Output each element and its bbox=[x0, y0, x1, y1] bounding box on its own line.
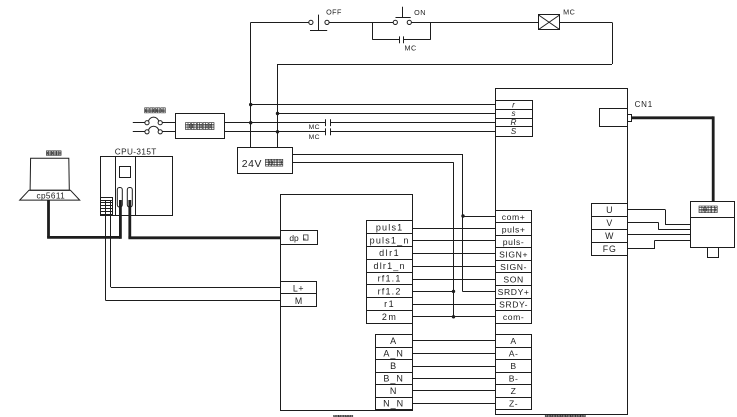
wire com+ tap bbox=[463, 216, 496, 218]
pin puls- (servo ctrl) bbox=[496, 236, 532, 248]
svg-text:B-: B- bbox=[509, 374, 519, 384]
pin SIGN+ (servo ctrl) bbox=[496, 248, 532, 261]
pin r1 (PLC out) bbox=[367, 298, 413, 311]
svg-text:U: U bbox=[606, 205, 613, 215]
wire puls1 to puls+ bbox=[413, 228, 496, 230]
wire PLC to L+ bbox=[111, 200, 281, 288]
pin com+ (servo ctrl) bbox=[496, 211, 532, 223]
label MC holding contact bbox=[405, 43, 417, 52]
svg-text:com-: com- bbox=[503, 312, 525, 322]
svg-text:B_N: B_N bbox=[383, 374, 404, 384]
wire 24V- output to 0V rail bbox=[292, 162, 453, 317]
svg-text:A: A bbox=[390, 336, 397, 346]
svg-text:MC: MC bbox=[309, 134, 320, 141]
svg-text:dlr1: dlr1 bbox=[379, 248, 400, 258]
terminal L+ bbox=[281, 282, 317, 294]
cable Profibus-DP PLC slot2 to dp port (thick) bbox=[128, 200, 280, 238]
svg-text:MC: MC bbox=[563, 8, 575, 17]
power supply 24V regulator box bbox=[238, 148, 293, 174]
svg-text:SIGN+: SIGN+ bbox=[499, 249, 528, 259]
svg-text:rf1.2: rf1.2 bbox=[378, 287, 402, 297]
wire A to A bbox=[412, 340, 496, 342]
svg-text:MC: MC bbox=[405, 43, 417, 52]
pin FG (servo motor out) bbox=[592, 243, 628, 256]
pin B- (servo enc out) bbox=[496, 373, 532, 385]
contact MC main R bbox=[326, 119, 331, 126]
svg-text:SRDY-: SRDY- bbox=[499, 300, 528, 310]
svg-text:R: R bbox=[511, 118, 517, 127]
svg-text:A: A bbox=[510, 336, 516, 346]
svg-text:Z: Z bbox=[511, 386, 517, 396]
svg-text:24V: 24V bbox=[242, 159, 262, 170]
wire rf1.1 to SON bbox=[413, 279, 496, 281]
pin com- (servo ctrl) bbox=[496, 311, 532, 324]
wire B_N to B- bbox=[412, 378, 496, 380]
label industrial PC (gong kong ji) bbox=[46, 151, 61, 156]
wire s feed to servo bbox=[278, 113, 496, 115]
label regulator (wen ya qi) bbox=[266, 159, 283, 166]
label power line filter bbox=[186, 123, 215, 130]
label cp5611 bbox=[36, 191, 65, 200]
pushbutton ON (NO) bbox=[393, 7, 411, 25]
svg-text:s: s bbox=[511, 109, 515, 118]
svg-text:A_N: A_N bbox=[383, 349, 404, 359]
wire OFF to ON-branch bbox=[329, 22, 393, 24]
pin 2m (PLC out) bbox=[367, 311, 413, 324]
svg-text:S: S bbox=[511, 127, 517, 136]
label CN1 bbox=[635, 100, 653, 109]
node s-tap on feeder 2 bbox=[276, 112, 279, 115]
wire A_N to A- bbox=[412, 353, 496, 355]
wire 2m to com- bbox=[413, 316, 496, 318]
pin Z (servo enc out) bbox=[496, 385, 532, 398]
pin s (servo mains) bbox=[496, 109, 533, 118]
svg-text:SON: SON bbox=[503, 275, 523, 285]
svg-text:A-: A- bbox=[509, 349, 519, 359]
wire PLC to M bbox=[106, 200, 281, 301]
node r-tap on feeder 1 bbox=[249, 103, 252, 106]
svg-text:dp: dp bbox=[289, 233, 299, 243]
node 24V+ to com+ tap bbox=[461, 214, 464, 217]
computer laptop base bbox=[20, 190, 80, 200]
svg-text:puls+: puls+ bbox=[502, 224, 526, 234]
contact MC holding (parallel with ON) bbox=[373, 36, 431, 43]
pin rf1.1 (PLC out) bbox=[367, 273, 413, 285]
pin dlr1_n (PLC out) bbox=[367, 260, 413, 273]
PLC port slot 2 bbox=[127, 188, 132, 208]
label OFF bbox=[326, 7, 342, 16]
svg-text:dlr1_n: dlr1_n bbox=[373, 261, 405, 271]
pin S (servo mains) bbox=[496, 127, 533, 137]
wire N_N to Z- bbox=[412, 403, 496, 405]
label MC coil bbox=[563, 8, 575, 17]
wire filter to MC main contact R bbox=[225, 122, 326, 124]
svg-text:FG: FG bbox=[603, 244, 617, 254]
label dp port bbox=[289, 233, 308, 243]
pin B_N (PLC in) bbox=[376, 373, 413, 385]
wire r1 to SRDY- bbox=[413, 304, 496, 306]
pin N_N (PLC in) bbox=[376, 398, 413, 410]
wire MC coil to return loop bbox=[560, 22, 613, 64]
contact MC main S bbox=[326, 128, 331, 135]
svg-text:N: N bbox=[390, 386, 398, 396]
filter box (dian yuan lv bo qi) bbox=[176, 114, 225, 139]
wire control return rail bbox=[278, 64, 613, 66]
computer laptop screen bbox=[30, 158, 69, 190]
pin N (PLC in) bbox=[376, 385, 413, 398]
node ON branch right bbox=[430, 22, 432, 39]
svg-text:puls-: puls- bbox=[503, 237, 525, 247]
pin SRDY+ (servo ctrl) bbox=[496, 286, 532, 299]
node filter-line tap on feeder 1 bbox=[249, 121, 252, 124]
svg-text:W: W bbox=[605, 231, 614, 241]
wire phase-1 feeder vertical (to 24V and OFF) bbox=[250, 22, 252, 147]
PLC terminal stripes bbox=[101, 197, 114, 215]
breaker QF pole 1 bbox=[133, 117, 176, 125]
wire puls1_n to puls- bbox=[413, 240, 496, 242]
svg-text:Z-: Z- bbox=[509, 399, 518, 409]
node filter-line tap on feeder 2 bbox=[276, 130, 279, 133]
terminal M bbox=[281, 294, 317, 307]
pin r (servo mains) bbox=[496, 100, 533, 109]
pin A- (servo enc out) bbox=[496, 348, 532, 360]
wire MC contact to servo R bbox=[330, 122, 495, 124]
wire B to B bbox=[412, 366, 496, 368]
wire dlr1 to SIGN+ bbox=[413, 253, 496, 255]
pushbutton OFF (NC) bbox=[309, 15, 329, 31]
wire MC contact to servo S bbox=[330, 131, 495, 133]
label under PLC rack (clipped) bbox=[334, 415, 353, 417]
svg-text:2m: 2m bbox=[382, 312, 398, 322]
label encoder (bian ma qi) bbox=[699, 206, 717, 213]
svg-text:M: M bbox=[295, 296, 302, 306]
svg-text:puls1_n: puls1_n bbox=[370, 235, 410, 245]
label air breaker (kong qi kai guan) bbox=[145, 108, 166, 113]
svg-text:rf1.1: rf1.1 bbox=[378, 274, 402, 284]
pin U (servo motor out) bbox=[592, 204, 628, 217]
connector dp port box bbox=[281, 231, 318, 245]
label MC main R bbox=[309, 124, 320, 131]
svg-text:B: B bbox=[390, 361, 397, 371]
wire r feed to servo bbox=[251, 104, 496, 106]
label under servo drive (clipped) bbox=[545, 415, 585, 417]
PLC I/O rack box bbox=[281, 195, 413, 411]
PLC CPU-315T body bbox=[101, 156, 173, 215]
svg-text:puls1: puls1 bbox=[376, 223, 404, 233]
pin W (servo motor out) bbox=[592, 230, 628, 243]
svg-text:SIGN-: SIGN- bbox=[500, 262, 527, 272]
pin A_N (PLC in) bbox=[376, 348, 413, 360]
pin SON (servo ctrl) bbox=[496, 273, 532, 286]
pin B (PLC in) bbox=[376, 360, 413, 373]
PLC port slot 1 bbox=[117, 188, 122, 208]
svg-text:OFF: OFF bbox=[326, 7, 342, 16]
svg-text:r: r bbox=[512, 100, 515, 109]
pin B (servo enc out) bbox=[496, 360, 532, 373]
svg-text:CPU-315T: CPU-315T bbox=[115, 147, 157, 156]
node ON branch left bbox=[372, 22, 374, 39]
label MC main S bbox=[309, 134, 320, 141]
wire phase-2 feeder vertical (to 24V and return rail) bbox=[277, 64, 279, 147]
connector CN1 box bbox=[600, 109, 632, 127]
cable encoder feedback CN1 to encoder (thick) bbox=[632, 116, 714, 201]
wire dlr1_n to SIGN- bbox=[413, 266, 496, 268]
pin puls1_n (PLC out) bbox=[367, 234, 413, 247]
svg-text:N_N: N_N bbox=[383, 399, 404, 409]
pin puls1 (PLC out) bbox=[367, 221, 413, 234]
pin SRDY- (servo ctrl) bbox=[496, 299, 532, 311]
node rf1.2 join on 0V rail bbox=[452, 290, 455, 293]
svg-text:com+: com+ bbox=[502, 212, 526, 222]
svg-text:B: B bbox=[510, 361, 516, 371]
coil MC (contactor coil) bbox=[538, 15, 559, 30]
svg-text:ON: ON bbox=[414, 8, 426, 17]
svg-text:r1: r1 bbox=[384, 299, 395, 309]
wire ON to MC coil bbox=[411, 22, 538, 24]
svg-text:V: V bbox=[606, 218, 613, 228]
svg-text:CN1: CN1 bbox=[635, 100, 653, 109]
cable MPI laptop to PLC slot1 (thick) bbox=[47, 200, 120, 239]
label 24V bbox=[242, 159, 262, 170]
pin A (PLC in) bbox=[376, 335, 413, 348]
node 0V rail to com- wire bbox=[452, 315, 455, 318]
pin Z- (servo enc out) bbox=[496, 398, 532, 410]
wire V to motor bbox=[628, 223, 691, 230]
pin A (servo enc out) bbox=[496, 335, 532, 348]
wire 24V+ output to com+ and SRDY+ bbox=[292, 155, 495, 292]
wire U to motor bbox=[628, 210, 691, 225]
encoder/motor box bbox=[690, 202, 734, 258]
pin V (servo motor out) bbox=[592, 217, 628, 230]
label CPU-315T bbox=[115, 147, 157, 156]
svg-text:MC: MC bbox=[309, 124, 320, 131]
breaker QF pole 2 bbox=[133, 126, 176, 134]
wire rf1.2 to 0V rail bbox=[413, 291, 454, 293]
wire filter to MC main contact S bbox=[225, 131, 326, 133]
wire N to Z bbox=[412, 390, 496, 392]
pin SIGN- (servo ctrl) bbox=[496, 261, 532, 273]
pin puls+ (servo ctrl) bbox=[496, 223, 532, 236]
PLC mode selector square bbox=[120, 167, 131, 178]
wire FG to motor bbox=[628, 240, 691, 248]
label ON bbox=[414, 8, 426, 17]
svg-text:cp5611: cp5611 bbox=[36, 191, 65, 200]
svg-text:SRDY+: SRDY+ bbox=[498, 287, 530, 297]
svg-text:L+: L+ bbox=[293, 283, 304, 293]
wire top control rail left segment bbox=[251, 22, 309, 24]
wire W to motor bbox=[628, 234, 691, 236]
pin rf1.2 (PLC out) bbox=[367, 285, 413, 298]
pin R (servo mains) bbox=[496, 118, 533, 127]
servo drive box bbox=[496, 89, 628, 415]
pin dlr1 (PLC out) bbox=[367, 247, 413, 260]
